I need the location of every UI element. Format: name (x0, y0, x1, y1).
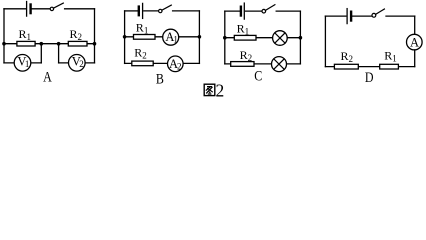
wire C bottom branch (R2 + lamp L2) (225, 63, 301, 65)
svg-text:R1: R1 (136, 21, 149, 36)
svg-text:A: A (43, 68, 52, 85)
wire D top-left segment (325, 15, 345, 17)
battery BT-C: long thin positive plate (243, 3, 245, 19)
svg-text:2: 2 (216, 81, 225, 100)
wire C battery to switch (246, 10, 263, 12)
resistor R2 (A) (68, 41, 87, 46)
wire V2 loop left vertical (58, 44, 60, 63)
switch S-B open blade (162, 5, 171, 10)
resistor R1 (C) (234, 35, 256, 40)
lamp L1 cross (275, 33, 285, 43)
wire C branch 1 (R1 + lamp L1) (225, 37, 301, 39)
wire V2 loop bottom (59, 62, 95, 64)
wire C switch to top-right corner (276, 10, 300, 12)
voltmeter V1 body (14, 55, 31, 72)
wire C left vertical (224, 11, 226, 64)
resistor R2 (D) (334, 64, 358, 69)
switch S-C pivot circle (262, 9, 266, 13)
battery BT-D: long thin positive plate (346, 9, 348, 24)
node A-mid-left junction (40, 42, 44, 46)
svg-text:R2: R2 (134, 46, 147, 61)
ammeter A1 body (163, 29, 179, 45)
wire C top-left segment (225, 10, 240, 12)
caption hanzi TU (图) drawn as strokes (204, 84, 215, 95)
wire D right vertical lower (ammeter to corner) (414, 50, 416, 67)
node A-left junction (2, 42, 6, 46)
wire B switch to top-right corner (173, 10, 200, 12)
wire D battery to switch (352, 15, 372, 17)
switch S-A open blade (53, 3, 63, 8)
switch S-B pivot circle (159, 9, 162, 12)
wire D left vertical (324, 16, 326, 67)
node C-right junction (299, 36, 303, 40)
wire D switch to top-right corner (386, 15, 415, 17)
wire A switch to top-right corner (65, 8, 95, 10)
wire C right vertical (299, 11, 301, 64)
ammeter A body (407, 34, 423, 50)
wire D right vertical upper (to ammeter) (414, 16, 416, 34)
resistor R2 (C) (231, 62, 254, 67)
battery BT-B: short thick negative plate (138, 7, 140, 16)
wire B bottom branch (R2 + A2) (125, 62, 200, 64)
resistor R1 (D) (380, 64, 399, 69)
wire B left vertical (124, 11, 126, 64)
wire B branch 1 (R1 + A1) (125, 36, 200, 38)
svg-text:R2: R2 (70, 27, 83, 42)
svg-text:A: A (410, 36, 419, 50)
resistor R1 (A) (17, 41, 35, 46)
battery BT-D: short thick negative plate (350, 12, 352, 21)
resistor R2 (B) (132, 61, 153, 66)
lamp L1 body (273, 31, 288, 46)
wire A left vertical (3, 9, 5, 63)
svg-text:D: D (365, 69, 374, 86)
node B-right junction (198, 35, 202, 39)
battery BT-B: long thin positive plate (142, 3, 144, 18)
svg-text:C: C (254, 67, 262, 84)
battery BT-A: short thick negative plate (29, 5, 31, 14)
wire B battery to switch (144, 10, 159, 12)
switch S-D pivot circle (372, 13, 376, 17)
node A-mid-right junction (57, 42, 61, 46)
lamp L2 body (272, 57, 287, 72)
wire A middle horizontal (R1-R2 series rail) (4, 43, 95, 45)
wire D bottom rail (325, 66, 414, 68)
svg-text:B: B (156, 70, 164, 87)
wire V1 loop right vertical (40, 44, 42, 63)
switch S-A pivot circle (50, 7, 53, 10)
wire V1 loop bottom (4, 62, 41, 64)
switch S-C open blade (265, 5, 275, 11)
svg-text:R1: R1 (19, 27, 32, 42)
wire A battery to switch (32, 8, 50, 10)
battery BT-A: long thin positive plate (26, 2, 28, 17)
wire B right vertical (198, 11, 200, 64)
node C-left junction (223, 36, 227, 40)
resistor R1 (B) (134, 35, 156, 40)
svg-text:R1: R1 (384, 48, 397, 63)
svg-text:R2: R2 (240, 48, 253, 63)
node A-right junction (93, 42, 97, 46)
wire A right vertical (94, 9, 96, 63)
voltmeter V2 body (69, 55, 86, 72)
switch S-D open blade (376, 9, 385, 14)
wire A top-left segment (4, 8, 25, 10)
wire B top-left segment (125, 10, 138, 12)
node B-left junction (123, 35, 127, 39)
svg-text:R1: R1 (237, 21, 250, 36)
svg-text:R2: R2 (341, 49, 354, 64)
battery BT-C: short thick negative plate (240, 7, 242, 16)
ammeter A2 body (168, 56, 184, 72)
lamp L2 cross (274, 59, 284, 69)
